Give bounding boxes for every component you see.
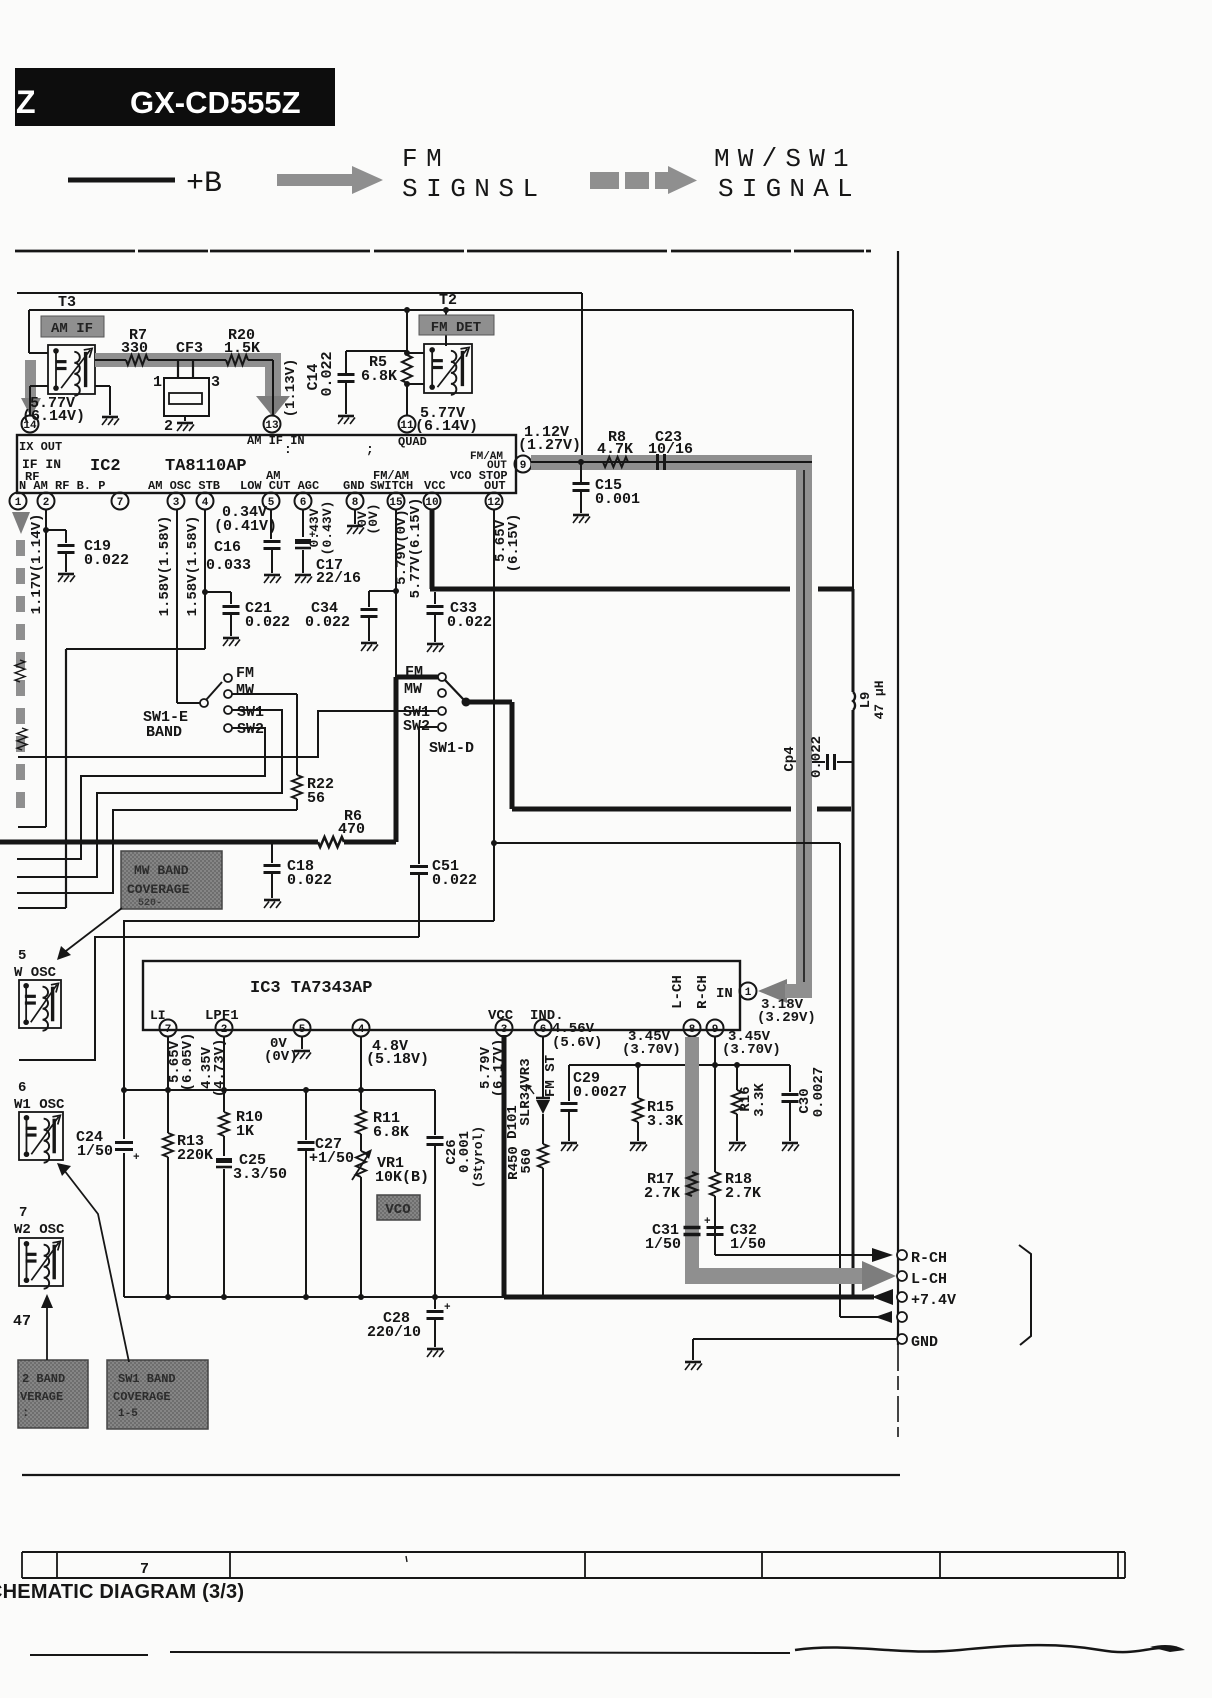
svg-text:0.022: 0.022 xyxy=(245,614,290,631)
svg-text:1: 1 xyxy=(153,374,162,391)
svg-text:47: 47 xyxy=(13,1313,31,1330)
resistor R15 xyxy=(630,1065,683,1151)
svg-text:SWITCH: SWITCH xyxy=(370,479,413,493)
frame right border line xyxy=(897,251,899,1437)
svg-text:1/50: 1/50 xyxy=(77,1143,113,1160)
svg-text:3: 3 xyxy=(501,1024,508,1036)
wire top net B (+B upper rail) xyxy=(29,307,853,589)
svg-text:3.3K: 3.3K xyxy=(752,1083,768,1117)
svg-text:2.7K: 2.7K xyxy=(725,1185,761,1202)
svg-text:N AM RF B. P: N AM RF B. P xyxy=(19,479,105,493)
svg-text:+: + xyxy=(133,1152,140,1164)
voltage label pin12 rotated xyxy=(493,514,522,573)
svg-text:+7.4V: +7.4V xyxy=(911,1292,956,1309)
svg-text:10/16: 10/16 xyxy=(648,441,693,458)
svg-text:2 BAND: 2 BAND xyxy=(22,1372,65,1386)
wire thick VCC from IC3 pin3 xyxy=(504,1035,874,1297)
connector bracket xyxy=(1019,1245,1031,1345)
svg-text:220K: 220K xyxy=(177,1147,213,1164)
svg-text:0.022: 0.022 xyxy=(84,552,129,569)
svg-text:MW/SW1: MW/SW1 xyxy=(714,144,857,174)
svg-text:8: 8 xyxy=(689,1024,696,1036)
svg-text:5: 5 xyxy=(268,497,275,509)
svg-text:R-CH: R-CH xyxy=(695,975,711,1009)
IC2 pin 5 xyxy=(263,493,280,510)
voltage label pin8 0V rotated xyxy=(355,503,381,534)
voltage label T3 5.77V xyxy=(22,395,85,425)
header black title bar xyxy=(15,68,335,126)
resistor R11 xyxy=(356,1037,409,1151)
ground IC3 pin5 xyxy=(294,1037,311,1059)
capacitor C17 electrolytic xyxy=(295,510,361,587)
voltage label pin15 rotated xyxy=(394,509,410,585)
svg-text:BAND: BAND xyxy=(146,724,182,741)
svg-text:FM: FM xyxy=(236,665,254,682)
svg-text:IC3 TA7343AP: IC3 TA7343AP xyxy=(250,979,372,998)
svg-text:0.0027: 0.0027 xyxy=(811,1067,827,1117)
IC3 pin 4 xyxy=(353,1020,370,1037)
switch SW1-E xyxy=(143,510,264,741)
svg-text:W1 OSC: W1 OSC xyxy=(14,1097,65,1113)
svg-text:OUT: OUT xyxy=(487,460,507,472)
voltage label IC3 pin6 xyxy=(552,1021,602,1051)
label MW BAND COVERAGE box xyxy=(121,851,222,909)
resistor R8 xyxy=(597,429,633,467)
wire IC3 ground bus xyxy=(124,1296,506,1298)
svg-text:0.033: 0.033 xyxy=(206,557,251,574)
IC IC3 TA7343AP body xyxy=(143,961,740,1030)
title block table xyxy=(22,1552,1125,1578)
capacitor C18 xyxy=(264,842,333,908)
inductor L9 47uH xyxy=(853,589,887,1297)
svg-text:(1.13V): (1.13V) xyxy=(283,359,299,418)
svg-text:L-CH: L-CH xyxy=(911,1271,947,1288)
svg-text:(1.27V): (1.27V) xyxy=(518,437,581,454)
svg-text:CHEMATIC DIAGRAM (3/3): CHEMATIC DIAGRAM (3/3) xyxy=(0,1581,244,1603)
svg-text:Cp4: Cp4 xyxy=(782,746,798,771)
capacitor C51 xyxy=(410,727,477,937)
svg-text:7: 7 xyxy=(117,497,124,509)
FM-signal arrow into IC3 pin1 xyxy=(758,979,812,1003)
svg-text:SLR34VR3: SLR34VR3 xyxy=(518,1058,534,1125)
capacitor C27 electrolytic xyxy=(298,1090,355,1300)
wire pin9 R-CH out xyxy=(715,1248,893,1262)
svg-text:IX OUT: IX OUT xyxy=(19,440,62,454)
IC2 pin 6 xyxy=(295,493,312,510)
svg-text:9: 9 xyxy=(712,1024,719,1036)
svg-text:14: 14 xyxy=(23,420,37,432)
svg-text:;: ; xyxy=(366,442,374,457)
svg-text:(Styrol): (Styrol) xyxy=(471,1126,486,1188)
wire R20 to pin13 with FM arrow xyxy=(256,360,290,417)
svg-text:GND: GND xyxy=(911,1334,938,1351)
svg-text:(3.29V): (3.29V) xyxy=(757,1010,816,1026)
svg-text:0.001: 0.001 xyxy=(595,491,640,508)
capacitor C26 xyxy=(427,1090,487,1300)
IC2 pin 13 xyxy=(264,416,281,433)
svg-text:47 μH: 47 μH xyxy=(872,680,887,719)
svg-text:470: 470 xyxy=(338,821,365,838)
svg-text:6: 6 xyxy=(18,1080,26,1096)
svg-text:R-CH: R-CH xyxy=(911,1250,947,1267)
voltage label pin3 1.58V rotated xyxy=(157,516,173,617)
resistor R17 xyxy=(644,1171,697,1202)
svg-text:GND: GND xyxy=(343,479,365,493)
svg-text:T2: T2 xyxy=(439,292,457,309)
wires R5 to T2 xyxy=(407,353,424,384)
wire T3 to pin14 with FM-signal arrow xyxy=(21,360,48,417)
IC3 pin 7 xyxy=(160,1020,177,1037)
svg-text:0.0027: 0.0027 xyxy=(573,1084,627,1101)
arrow MW coverage to MW OSC xyxy=(57,908,122,960)
resistor R10 xyxy=(219,1037,263,1156)
svg-text:OUT: OUT xyxy=(484,479,506,493)
voltage label pin4 1.58V rotated xyxy=(185,516,201,617)
svg-text:9: 9 xyxy=(520,460,527,472)
IC3 pin 2 xyxy=(216,1020,233,1037)
arrow SW2 coverage to SW2 OSC xyxy=(13,1294,53,1360)
wire thick band-switch rail xyxy=(396,677,851,842)
IC2 pin 15 xyxy=(388,493,405,510)
svg-text:(6.14V): (6.14V) xyxy=(415,418,478,435)
svg-text:560: 560 xyxy=(519,1148,535,1173)
resistor R13 xyxy=(163,1037,213,1300)
voltage label IC3 pin2 rotated xyxy=(199,1039,228,1098)
IC2 pin 3 xyxy=(168,493,185,510)
IC2 pin 1 xyxy=(10,493,27,510)
legend FM signal arrow xyxy=(277,144,547,204)
svg-text:22/16: 22/16 xyxy=(316,570,361,587)
voltage label 1.17V rotated xyxy=(29,514,45,615)
resistor R16 xyxy=(729,1065,768,1151)
transformer SW1 OSC xyxy=(14,1080,65,1163)
LED D101 SLR34VR3 xyxy=(505,1037,559,1144)
IC2 pin 9 xyxy=(515,456,532,473)
IC2 pin 2 xyxy=(38,493,55,510)
resistor R18 xyxy=(710,1037,761,1255)
svg-text:10: 10 xyxy=(425,497,438,509)
svg-text:2: 2 xyxy=(164,418,173,435)
svg-text:FM DET: FM DET xyxy=(431,320,481,336)
IC2 pin 4 xyxy=(197,493,214,510)
arrow +7.4V into rail xyxy=(872,1289,893,1305)
voltage label IC3 pin7 rotated xyxy=(167,1033,196,1092)
svg-text:1-5: 1-5 xyxy=(118,1408,138,1420)
svg-text:AM IF IN: AM IF IN xyxy=(247,434,305,448)
svg-text:10K(B): 10K(B) xyxy=(375,1169,429,1186)
terminal R-CH xyxy=(897,1250,947,1267)
svg-text:Z: Z xyxy=(16,84,36,120)
wire pin12 down xyxy=(491,510,497,921)
capacitor C25 electrolytic xyxy=(216,1152,287,1300)
svg-text:(0.41V): (0.41V) xyxy=(214,518,277,535)
voltage label pin9 1.12V xyxy=(518,424,581,454)
capacitor C34 xyxy=(305,588,399,651)
capacitor Cp4 xyxy=(782,736,853,778)
svg-text:6.8K: 6.8K xyxy=(373,1124,409,1141)
capacitor C21 xyxy=(205,592,290,646)
svg-text:4: 4 xyxy=(358,1024,365,1036)
label AM IF block xyxy=(41,316,104,337)
svg-text:7: 7 xyxy=(140,1561,149,1578)
svg-text:LOW CUT AGC: LOW CUT AGC xyxy=(240,479,319,493)
wire net to SW1-D SW1 terminal xyxy=(18,711,437,757)
wire pin2 down xyxy=(18,510,46,827)
svg-text:SW2: SW2 xyxy=(237,721,264,738)
svg-text:MW: MW xyxy=(236,682,254,699)
capacitor C30 xyxy=(782,1065,828,1151)
svg-text:VERAGE: VERAGE xyxy=(20,1390,63,1404)
svg-text:FM: FM xyxy=(402,144,450,174)
capacitor C29 xyxy=(561,1065,628,1151)
svg-text:4.7K: 4.7K xyxy=(597,441,633,458)
ground pin8 xyxy=(347,510,364,534)
IC IC2 TA8110AP body xyxy=(17,434,516,493)
wire staircase SW1 to left xyxy=(17,710,282,877)
svg-text:5: 5 xyxy=(18,948,26,964)
svg-text:FM: FM xyxy=(405,664,423,681)
svg-text:220/10: 220/10 xyxy=(367,1324,421,1341)
svg-text:6.8K: 6.8K xyxy=(361,368,397,385)
svg-text:FM ST: FM ST xyxy=(543,1055,559,1097)
svg-text:SIGNSL: SIGNSL xyxy=(402,174,547,204)
switch SW1-D xyxy=(403,664,474,757)
frame dashed separator line xyxy=(15,250,871,253)
svg-text:+B: +B xyxy=(186,167,222,201)
IC3 pin 5 xyxy=(294,1020,311,1037)
svg-text:4: 4 xyxy=(202,497,209,509)
resistor R7 xyxy=(95,327,281,367)
IC3 pin 3 xyxy=(496,1020,513,1037)
svg-text:0.022: 0.022 xyxy=(447,614,492,631)
potentiometer VR1 xyxy=(352,1149,429,1300)
label SW2 BAND COVERAGE box xyxy=(18,1360,88,1428)
svg-text:+: + xyxy=(704,1216,711,1228)
ground CF3 pin2 xyxy=(177,423,194,431)
svg-text:AM OSC STB: AM OSC STB xyxy=(148,479,220,493)
svg-text:3: 3 xyxy=(173,497,180,509)
label VCO box xyxy=(377,1195,420,1220)
ground T3 secondary xyxy=(95,386,119,425)
voltage label 0.34V xyxy=(214,504,277,535)
svg-text:6: 6 xyxy=(300,497,307,509)
svg-text:LPF1: LPF1 xyxy=(205,1008,239,1024)
svg-text:W2 OSC: W2 OSC xyxy=(14,1222,65,1238)
svg-text:0.022: 0.022 xyxy=(432,872,477,889)
wire thick +B rail y842 with resistor R6 xyxy=(0,808,396,847)
svg-text:(0V): (0V) xyxy=(264,1049,298,1065)
wire LPF horizontal net xyxy=(121,1087,435,1093)
svg-text:SW1 BAND: SW1 BAND xyxy=(118,1372,176,1386)
voltage label (1.13V) rotated xyxy=(283,359,299,418)
svg-text:3.3/50: 3.3/50 xyxy=(233,1166,287,1183)
label FM DET block xyxy=(419,315,494,336)
svg-text:1.58V(1.58V): 1.58V(1.58V) xyxy=(185,516,201,617)
svg-text:(3.70V): (3.70V) xyxy=(722,1042,781,1058)
svg-text:1: 1 xyxy=(15,497,22,509)
IC3 pin 8 xyxy=(684,1020,701,1037)
svg-text:1: 1 xyxy=(745,987,752,999)
svg-text:T3: T3 xyxy=(58,294,76,311)
svg-text:W OSC: W OSC xyxy=(14,965,57,981)
svg-text:0.022: 0.022 xyxy=(287,872,332,889)
voltage label IC3 pin9 xyxy=(722,1029,781,1058)
wire C29/R15 net xyxy=(569,1062,790,1068)
svg-text:+: + xyxy=(444,1302,451,1314)
svg-text:L-CH: L-CH xyxy=(670,975,686,1009)
wire pin15 down xyxy=(395,510,397,677)
IC2 pin 7 xyxy=(112,493,129,510)
wire pin9 FM-signal band xyxy=(531,455,812,986)
capacitor C28 electrolytic xyxy=(367,1297,451,1357)
wire pin8 L-CH signal band xyxy=(685,1037,896,1291)
svg-text:(0V): (0V) xyxy=(366,503,381,534)
svg-text:SW1-D: SW1-D xyxy=(429,740,474,757)
svg-text:1/50: 1/50 xyxy=(730,1236,766,1253)
wire staircase MW/R22 to left xyxy=(17,810,297,893)
svg-text:5.77V(6.15V): 5.77V(6.15V) xyxy=(408,498,424,599)
svg-text:MW BAND: MW BAND xyxy=(134,863,189,878)
svg-text:2: 2 xyxy=(221,1024,228,1036)
bottom rule line xyxy=(22,1474,900,1476)
IC2 pin 8 xyxy=(347,493,364,510)
voltage label IC3 pin8 xyxy=(622,1029,681,1058)
wire T3 top lead xyxy=(29,352,48,354)
wire pin12 net to C24 column xyxy=(124,921,494,1139)
svg-text:COVERAGE: COVERAGE xyxy=(113,1390,171,1404)
svg-text:SW1: SW1 xyxy=(237,704,264,721)
svg-text:(5.18V): (5.18V) xyxy=(366,1051,429,1068)
svg-text:VCC: VCC xyxy=(424,479,446,493)
svg-text:(6.15V): (6.15V) xyxy=(506,514,522,573)
wire GND to ground xyxy=(685,1339,897,1370)
svg-text:COVERAGE: COVERAGE xyxy=(127,882,190,897)
svg-text:7: 7 xyxy=(165,1024,172,1036)
svg-text:2.7K: 2.7K xyxy=(644,1185,680,1202)
legend +B line symbol xyxy=(68,167,222,201)
resistor R22 xyxy=(232,694,334,810)
terminal L-CH xyxy=(897,1271,947,1288)
svg-text:2: 2 xyxy=(43,497,50,509)
svg-text:CF3: CF3 xyxy=(176,340,203,357)
voltage label T2 5.77V xyxy=(415,405,478,435)
svg-text:12: 12 xyxy=(487,497,500,509)
wire pin4 net to left column xyxy=(18,510,208,908)
svg-text:0.022: 0.022 xyxy=(319,351,336,396)
svg-text:1.5K: 1.5K xyxy=(224,340,260,357)
svg-text:1.58V(1.58V): 1.58V(1.58V) xyxy=(157,516,173,617)
IC3 pin 1 xyxy=(740,983,757,1000)
svg-text:5: 5 xyxy=(299,1024,306,1036)
svg-text:AM IF: AM IF xyxy=(51,321,93,337)
IC2 pin 10 xyxy=(424,493,441,510)
capacitor C23 xyxy=(648,429,693,470)
wire thick VCC rail from pin10 xyxy=(430,510,853,589)
IC2 pin 11 xyxy=(399,416,416,433)
svg-text:+1/50: +1/50 xyxy=(309,1150,354,1167)
capacitor C19 xyxy=(43,527,129,582)
voltage label IC3 pin1 xyxy=(757,997,816,1026)
svg-text:0.022: 0.022 xyxy=(809,736,825,778)
voltage label pin6 0.43V rotated xyxy=(307,501,335,556)
wire thin +7.4V feed xyxy=(495,843,878,1317)
svg-text:56: 56 xyxy=(307,790,325,807)
MW/SW1 dashed signal path from pin1 xyxy=(12,512,30,808)
capacitor C15 xyxy=(573,462,641,523)
arrow SW1 coverage to SW1 OSC xyxy=(57,1163,129,1362)
label SW1 BAND COVERAGE box xyxy=(107,1360,208,1429)
legend MW/SW1 signal dashed arrow xyxy=(590,144,861,204)
svg-text:GX-CD555Z: GX-CD555Z xyxy=(130,85,301,120)
voltage label pin10 rotated xyxy=(408,498,424,599)
IC3 pin 6 xyxy=(535,1020,552,1037)
svg-text:(3.70V): (3.70V) xyxy=(622,1042,681,1058)
svg-text:1.17V(1.14V): 1.17V(1.14V) xyxy=(29,514,45,615)
IC2 pin 12 xyxy=(486,493,503,510)
transformer T2 xyxy=(424,292,472,395)
IC3 pin 9 xyxy=(707,1020,724,1037)
svg-text:(5.6V): (5.6V) xyxy=(552,1035,602,1051)
wire top net A xyxy=(17,293,582,462)
resistor R20 xyxy=(224,327,273,365)
svg-text:(0.43V): (0.43V) xyxy=(320,501,335,556)
voltage label IC3 pin5 xyxy=(264,1036,298,1065)
svg-text:TA8110AP: TA8110AP xyxy=(165,457,247,476)
svg-text::: : xyxy=(284,442,292,457)
svg-text:IC2: IC2 xyxy=(90,457,121,476)
transformer T3 xyxy=(48,294,95,396)
svg-text:1/50: 1/50 xyxy=(645,1236,681,1253)
terminal +7.4V xyxy=(897,1292,956,1309)
svg-text:SIGNAL: SIGNAL xyxy=(718,174,861,204)
wire C51 to MW OSC xyxy=(19,937,419,1060)
IC2 pin 14 xyxy=(22,416,39,433)
svg-text:0.022: 0.022 xyxy=(305,614,350,631)
svg-text:VCO: VCO xyxy=(385,1202,410,1218)
capacitor C24 xyxy=(76,1129,140,1297)
wire staircase SW2 to left xyxy=(17,728,265,859)
svg-text:11: 11 xyxy=(400,420,414,432)
svg-text::: : xyxy=(22,1406,29,1420)
resistor R450 xyxy=(506,1144,548,1297)
svg-text:13: 13 xyxy=(265,420,279,432)
capacitor C14 xyxy=(305,351,407,424)
junction pin9/top-net xyxy=(578,459,584,465)
svg-text:MW: MW xyxy=(404,681,422,698)
svg-text:520-: 520- xyxy=(138,898,162,909)
svg-text:6: 6 xyxy=(540,1024,547,1036)
capacitor C16 xyxy=(206,510,281,583)
caption schematic diagram xyxy=(0,1581,244,1603)
bottom scan marks xyxy=(30,1645,1185,1655)
voltage label IC3 pin4 xyxy=(366,1038,429,1068)
capacitor C33 xyxy=(427,592,493,652)
svg-text:1K: 1K xyxy=(236,1123,254,1140)
terminal spare xyxy=(875,1311,907,1323)
capacitor C31 electrolytic xyxy=(645,1222,701,1253)
transformer SW2 OSC xyxy=(14,1205,65,1289)
voltage label IC3 pin3 rotated xyxy=(478,1039,507,1098)
transformer MW OSC xyxy=(14,948,61,1031)
ceramic filter CF3 xyxy=(153,340,226,435)
svg-text:7: 7 xyxy=(19,1205,27,1221)
resistor R5 xyxy=(361,307,412,416)
svg-text:3.3K: 3.3K xyxy=(647,1113,683,1130)
svg-text:C16: C16 xyxy=(214,539,241,556)
capacitor C32 electrolytic xyxy=(704,1216,766,1253)
svg-text:8: 8 xyxy=(352,497,359,509)
svg-text:QUAD: QUAD xyxy=(398,435,427,449)
